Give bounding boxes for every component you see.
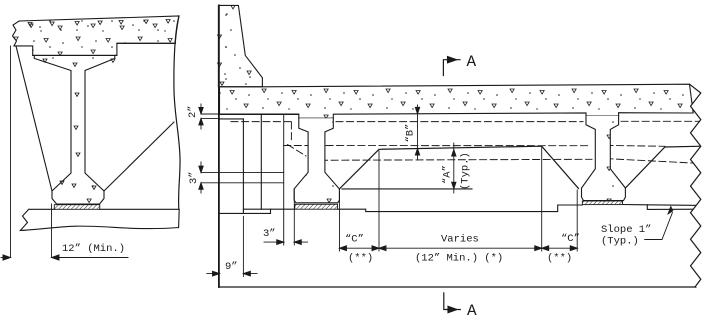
"A" (Typ.) dimension	[453, 143, 455, 193]
diagonal line left	[16, 46, 52, 191]
girder 2 bearing pad	[582, 201, 622, 205]
3" (vertical) dimension	[201, 172, 284, 174]
haunch extra stipple marks	[43, 59, 115, 189]
pedestal (raised seat) between girders	[339, 146, 578, 189]
wavy break edge (right side of left view)	[174, 16, 180, 209]
hidden dashed line D1	[231, 121, 699, 163]
svg-text:Varies: Varies	[441, 234, 479, 246]
9" dimension	[242, 216, 244, 276]
dimension 12" (Min.)	[1, 46, 128, 260]
hidden vertical by girder 1	[290, 122, 292, 140]
parapet/deck joint line	[218, 86, 262, 88]
svg-text:9”: 9”	[225, 261, 238, 273]
I-beam outline	[34, 55, 115, 204]
girder 1 (at backwall)	[294, 118, 339, 203]
backwall top	[220, 118, 244, 120]
svg-text:“C”: “C”	[345, 234, 364, 246]
svg-text:(Typ.): (Typ.)	[460, 152, 472, 190]
left slab stipple top row	[28, 20, 170, 31]
backwall verticals	[242, 119, 244, 213]
svg-text:(Typ.): (Typ.)	[601, 236, 639, 248]
svg-text:Slope 1”: Slope 1”	[601, 224, 651, 236]
bottom line of abutment	[219, 286, 696, 288]
svg-text:(**): (**)	[547, 253, 572, 265]
svg-text:(12” Min.) (*): (12” Min.) (*)	[415, 253, 503, 265]
svg-text:3”: 3”	[263, 228, 276, 240]
bent cap (left view)	[20, 209, 179, 230]
Slope leader	[645, 213, 673, 240]
hidden dashed line D3	[310, 159, 592, 160]
girder 2	[582, 116, 626, 201]
bearing pad (hatched)	[54, 205, 100, 210]
svg-text:(**): (**)	[348, 253, 373, 265]
section cut A (top)	[443, 60, 460, 76]
diagonal line right	[104, 122, 174, 191]
svg-text:2”: 2”	[187, 105, 199, 118]
svg-text:3”: 3”	[188, 171, 200, 184]
section cut A (bottom)	[444, 293, 461, 310]
deck slab (right)	[220, 84, 694, 118]
hidden dashed line D2	[284, 145, 590, 147]
pedestal top edge right of girder 2	[625, 146, 702, 188]
right zigzag break line	[690, 84, 713, 287]
svg-text:A: A	[467, 302, 477, 317]
svg-text:12” (Min.): 12” (Min.)	[62, 243, 125, 255]
parapet	[218, 5, 262, 86]
cap seat lines	[243, 208, 294, 210]
svg-text:“C”: “C”	[561, 233, 580, 245]
deck slab (left)	[13, 16, 180, 55]
hidden diagonal by girder 1	[288, 145, 307, 157]
2" dimension	[201, 113, 299, 115]
3" dimension at girder 1	[293, 190, 295, 245]
beam flange top line	[33, 54, 117, 56]
svg-text:A: A	[467, 53, 477, 71]
girder 1 bearing pad	[295, 204, 338, 209]
left face (thick)	[218, 5, 220, 287]
C / Varies dimension line	[340, 148, 578, 252]
svg-text:“B”: “B”	[405, 124, 417, 143]
svg-text:“A”: “A”	[442, 165, 454, 184]
"B" dimension	[417, 105, 419, 160]
slab bottom-right edge line	[117, 42, 175, 44]
